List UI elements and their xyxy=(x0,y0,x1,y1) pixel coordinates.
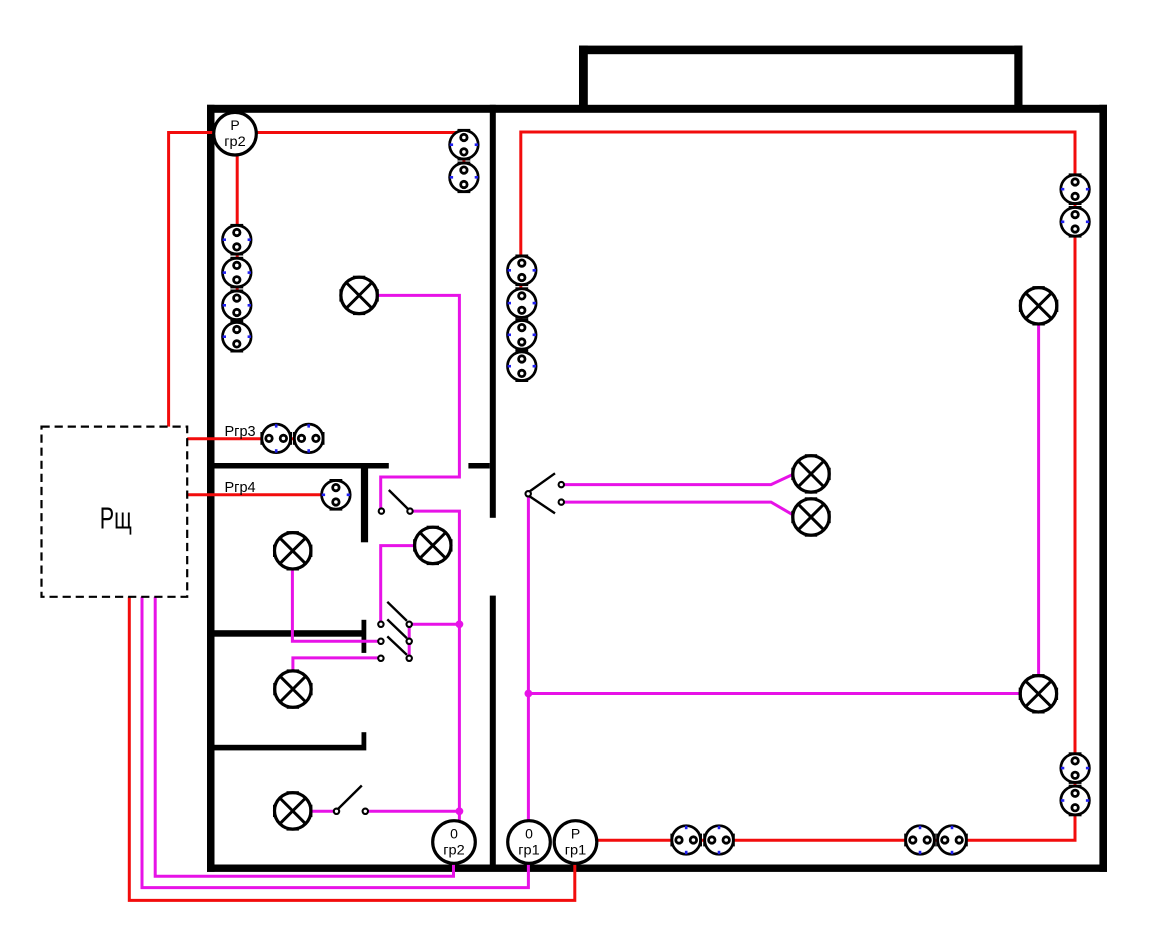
wire magenta lamp4 to 3-gang bottom contact xyxy=(293,658,379,689)
svg-text:гр2: гр2 xyxy=(443,841,465,857)
socket right room col 4 xyxy=(508,352,537,381)
svg-text:гр1: гр1 xyxy=(565,841,587,857)
wall A closet stub xyxy=(361,463,368,542)
socket Pgr4 xyxy=(322,480,351,509)
socket Pgr3 pair 2 xyxy=(294,424,323,453)
junction dot riser/3-gang xyxy=(456,620,464,628)
lamp right room top xyxy=(1020,288,1056,324)
junction box Pgr2 xyxy=(214,112,257,155)
svg-text:Ргр4: Ргр4 xyxy=(225,480,256,496)
svg-text:Рщ: Рщ xyxy=(100,501,132,536)
wire magenta lamp1 to switch S1 xyxy=(359,295,459,508)
wire red group1 loop through sockets xyxy=(521,132,1075,840)
socket top pair 1 xyxy=(450,130,479,159)
socket bottom pair1 a xyxy=(672,826,701,855)
wall B xyxy=(207,630,362,637)
wall C xyxy=(207,745,362,751)
socket right wall bottom 1 xyxy=(1061,754,1090,783)
distribution board Psch (dashed box) xyxy=(42,427,188,597)
wire magenta switch S1 output down to box 0gr2 xyxy=(411,511,460,823)
wall B door jamb xyxy=(362,620,367,653)
wall balcony left xyxy=(579,46,588,106)
svg-text:гр2: гр2 xyxy=(224,133,246,149)
wire magenta between right room lamps xyxy=(1037,306,1040,694)
svg-text:Ргр3: Ргр3 xyxy=(225,424,256,440)
socket top pair 2 xyxy=(450,163,479,192)
switch S1 single (closet room) xyxy=(379,490,413,514)
wire magenta 3-gang right contact chain xyxy=(408,624,411,658)
lamp chandelier B xyxy=(793,499,829,535)
wire red Pgr4 to socket xyxy=(187,493,322,496)
socket right wall top 2 xyxy=(1061,207,1090,236)
switch S4 two-gang (right room) xyxy=(526,473,565,513)
socket wall-left 3 xyxy=(223,291,252,320)
wall outer bottom xyxy=(207,865,1107,872)
wall middle lower xyxy=(490,596,496,868)
wall outer left xyxy=(207,105,215,872)
wire magenta switch S3 output to riser xyxy=(368,810,460,813)
wire magenta 3-gang top contact to riser xyxy=(412,623,460,626)
lamp top-left room xyxy=(341,277,377,313)
wire red link between top socket pair xyxy=(462,145,465,178)
socket right room col 2 xyxy=(508,289,537,318)
junction dot right room branch xyxy=(525,690,533,698)
socket Pgr3 pair 1 xyxy=(262,424,291,453)
junction box Pgr1 xyxy=(554,821,597,864)
wire magenta branch to right room lamp xyxy=(528,692,1038,695)
wall C door jamb xyxy=(362,732,367,750)
junction box 0gr1 xyxy=(508,821,551,864)
wall A right part xyxy=(468,463,489,469)
socket wall-left 1 xyxy=(223,225,252,254)
wall A left part xyxy=(207,463,389,469)
wire red Pgr3 to socket pair xyxy=(187,437,309,440)
wall balcony right xyxy=(1014,46,1022,106)
socket bottom pair2 b xyxy=(938,826,967,855)
lamp bottom room xyxy=(275,793,311,829)
lamp right room bottom xyxy=(1020,676,1056,712)
svg-text:0: 0 xyxy=(525,825,533,841)
socket bottom pair1 b xyxy=(705,826,734,855)
socket right room col 3 xyxy=(508,320,537,349)
svg-text:0: 0 xyxy=(450,825,458,841)
wall outer right xyxy=(1099,105,1107,872)
socket right room col 1 xyxy=(508,256,537,285)
wire red feed group2 from panel to Pgr2 and top sockets xyxy=(169,133,458,428)
junction box 0gr2 xyxy=(433,821,476,864)
socket right wall top 1 xyxy=(1061,175,1090,204)
wire magenta S4 bottom output to chandelier lamp B xyxy=(562,502,811,516)
lamp closet room left xyxy=(275,533,311,569)
wire magenta lamp5 to switch S3 xyxy=(293,810,334,813)
switch S2 three-gang xyxy=(378,602,412,661)
lamp chandelier A xyxy=(793,456,829,492)
wire magenta box 0gr1 to panel xyxy=(142,596,528,888)
svg-text:Р: Р xyxy=(571,825,580,841)
wire magenta switch S4 pivot down to box 0gr1 xyxy=(527,496,530,823)
switch S3 single (bottom room) xyxy=(334,786,368,815)
socket right wall bottom 2 xyxy=(1061,786,1090,815)
socket wall-left 2 xyxy=(223,258,252,287)
svg-text:гр1: гр1 xyxy=(518,841,540,857)
wire red Pgr2 drop to socket column xyxy=(236,136,239,339)
wall outer top xyxy=(207,105,1107,113)
wire magenta box 0gr2 to panel xyxy=(155,596,453,876)
wall middle upper xyxy=(490,105,496,518)
svg-text:Р: Р xyxy=(230,117,239,133)
wire red feed group1 from panel to Pgr1 xyxy=(129,596,575,900)
lamp middle room xyxy=(275,671,311,707)
lamp closet room right xyxy=(415,527,451,563)
junction dot riser/S3 xyxy=(456,807,464,815)
wire magenta S4 top output to chandelier lamp A xyxy=(562,474,811,485)
socket wall-left 4 xyxy=(223,322,252,351)
socket bottom pair2 a xyxy=(906,826,935,855)
wire magenta lamp2 to 3-gang top-left contact xyxy=(381,546,433,622)
wall balcony top xyxy=(579,46,1023,55)
wire magenta lamp3 to 3-gang middle contact xyxy=(292,551,378,642)
